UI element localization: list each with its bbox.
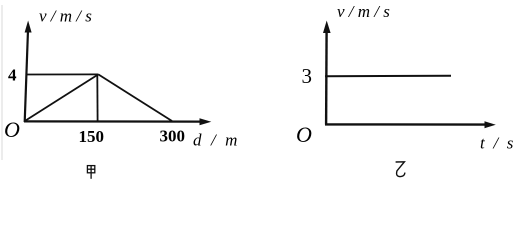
svg-text:d / m: d / m bbox=[193, 131, 240, 150]
svg-text:3: 3 bbox=[302, 64, 313, 88]
left graph rising line from origin to peak bbox=[25, 74, 98, 120]
right graph x-axis bbox=[325, 121, 496, 128]
svg-text:O: O bbox=[4, 117, 20, 142]
svg-text:v / m / s: v / m / s bbox=[337, 2, 390, 21]
right graph y-axis bbox=[323, 21, 331, 125]
left graph horizontal line at v=4 bbox=[26, 73, 98, 75]
svg-text:v / m / s: v / m / s bbox=[39, 7, 92, 26]
right graph horizontal line at v=3 bbox=[325, 75, 451, 77]
left graph falling line from peak to 300 bbox=[98, 74, 172, 121]
svg-text:4: 4 bbox=[8, 66, 17, 85]
right graph caption 乙 bbox=[396, 162, 405, 177]
svg-text:150: 150 bbox=[79, 127, 105, 146]
left graph x-axis bbox=[24, 118, 211, 125]
left graph vertical line at d=150 bbox=[96, 75, 98, 122]
svg-text:O: O bbox=[296, 122, 312, 147]
svg-text:t / s: t / s bbox=[480, 134, 516, 153]
scan artifact: faint left edge line bbox=[1, 5, 3, 160]
left graph caption 甲 bbox=[87, 166, 94, 179]
svg-text:300: 300 bbox=[160, 127, 186, 146]
left graph y-axis bbox=[25, 21, 32, 123]
